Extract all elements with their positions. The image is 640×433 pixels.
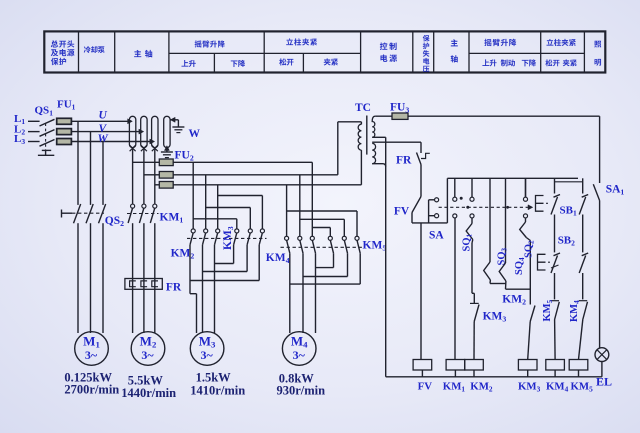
svg-text:3~: 3~: [141, 348, 154, 362]
svg-text:3~: 3~: [85, 348, 98, 362]
svg-text:FV: FV: [394, 206, 410, 218]
svg-text:U: U: [99, 110, 108, 122]
svg-text:W: W: [189, 128, 201, 140]
svg-text:TC: TC: [355, 102, 371, 114]
svg-text:FR: FR: [396, 155, 412, 167]
svg-text:FR: FR: [166, 282, 182, 294]
svg-text:1.5kW: 1.5kW: [196, 371, 232, 385]
svg-text:3~: 3~: [293, 348, 306, 362]
svg-text:2700r/min: 2700r/min: [64, 383, 119, 397]
svg-text:SA: SA: [429, 230, 444, 242]
svg-text:930r/min: 930r/min: [277, 384, 326, 398]
svg-text:1410r/min: 1410r/min: [190, 384, 245, 398]
svg-text:1440r/min: 1440r/min: [121, 386, 176, 400]
svg-text:FV: FV: [418, 380, 433, 392]
svg-text:3~: 3~: [200, 348, 213, 362]
